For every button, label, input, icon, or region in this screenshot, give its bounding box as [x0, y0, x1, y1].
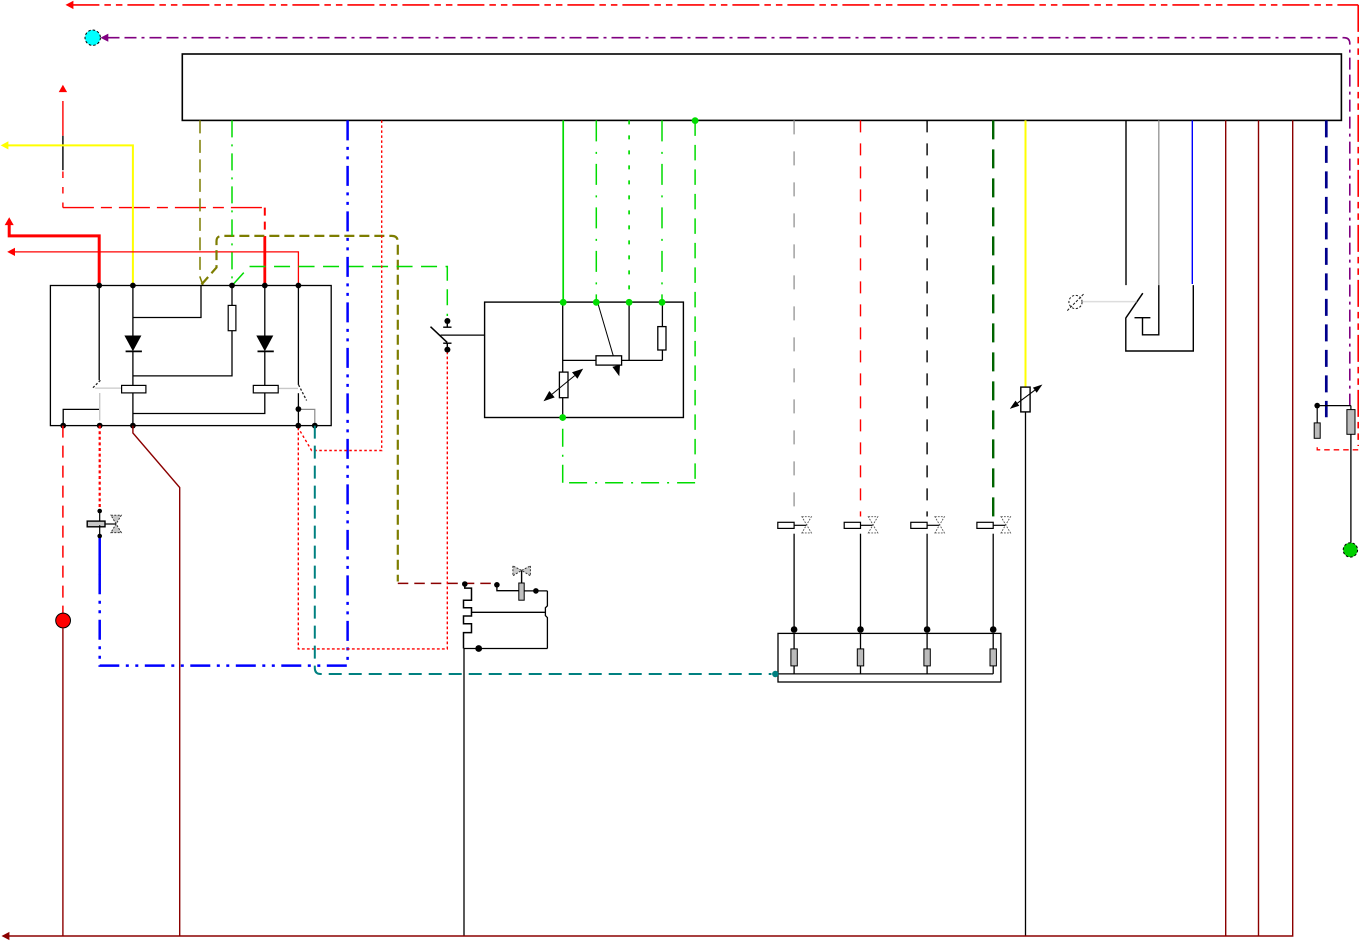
arrow adjustable double-head through vertical resistor	[552, 376, 575, 395]
wire red vertical into relay terminal 15 (dashed then thick)	[264, 208, 266, 231]
resistor R2 adjustable trim	[1021, 387, 1030, 412]
wire mid dot to solenoid	[497, 586, 519, 591]
wire red dashed to injector 2	[860, 120, 862, 516]
wire green dotted ECU to sensor pin 3	[628, 120, 630, 302]
arrow dark red ground bus left	[2, 932, 10, 940]
symbol rotation input circle-slash	[1069, 295, 1082, 308]
wire yellow terminal down to diode D1	[132, 286, 134, 337]
wire black dashed to injector 3	[926, 120, 928, 516]
relay K1 double relay box	[50, 286, 331, 426]
wire red dash-dot horizontal y=208	[63, 207, 265, 209]
wire right contact to bottom terminals	[297, 393, 299, 409]
wire green dashed ECU pin down right of sensor	[694, 120, 696, 482]
node green terminals sensor top	[559, 117, 698, 421]
wire blue ECU to sensor right pin	[1191, 120, 1193, 284]
node cyan terminal circle top-left	[85, 30, 100, 45]
node green connector circle	[1343, 543, 1357, 557]
arrow yellow left	[1, 141, 9, 149]
wire thin red feed with left arrow to relay terminal right	[14, 252, 298, 286]
heater element zigzag	[464, 585, 472, 649]
wire dark red from connector to ground bus	[62, 628, 64, 936]
wire dark red ECU to ground bus 2	[1258, 120, 1260, 936]
wire teal dashed relay to injector rail	[315, 426, 772, 674]
wire top red dash-dot supply line with left arrow, wraps down right edge	[72, 5, 1358, 446]
injector V1 valve symbol	[778, 517, 812, 629]
coil injector 2	[860, 633, 862, 674]
wire trim resistor to ground bus	[1025, 412, 1027, 936]
wire pin3 to track	[628, 302, 630, 360]
diode D1	[124, 336, 141, 352]
valve Y1 idle air valve	[99, 513, 101, 521]
wire dark-green dashed to injector 4	[992, 120, 994, 516]
coil injector 3	[926, 633, 928, 674]
arrow left end of top red line	[66, 1, 74, 9]
wire track left	[563, 359, 596, 361]
wire olive terminal to diode branch	[133, 286, 201, 318]
resistor vertical in sensor	[559, 372, 568, 398]
node relay bottom terminals	[60, 406, 317, 428]
node injector rail terminals	[791, 626, 997, 633]
wire lime dashed from relay terminal to ignition switch	[233, 267, 447, 317]
box injector rail resistor pack	[778, 633, 1001, 682]
wire blue dash-dot-dot from ECU pin down and left to air valve	[100, 120, 348, 665]
wire green dash-dot ECU to sensor pin 2	[595, 120, 597, 302]
wire pin1 vertical through box	[562, 302, 564, 372]
arrow wiper head	[612, 365, 620, 377]
wire diode D2 cathode to coil K1b	[264, 352, 266, 386]
injector V4 valve symbol	[977, 517, 1011, 629]
wire resistor R4 to green connector	[1350, 434, 1352, 542]
resistor right vertical in sensor	[658, 327, 666, 350]
injector V3 valve symbol	[911, 517, 945, 629]
node junction dot bottom	[475, 645, 482, 652]
switch S1 ignition-fed switch at x=447	[446, 322, 448, 327]
wire regulator bottom rail	[464, 648, 548, 650]
sensor interior	[563, 301, 663, 418]
wire gray ECU to sensor mid pin	[1158, 120, 1160, 285]
wire solenoid to right rail	[524, 590, 547, 592]
wire olive dashed from ECU pin to relay	[200, 120, 203, 285]
wire pin4 to resistor	[661, 302, 663, 327]
wire navy thick dashed ECU down right side	[1325, 120, 1328, 417]
resistor R3 small gray	[1314, 423, 1320, 438]
valve bowtie gray	[513, 566, 522, 576]
wire red dotted relay to air valve	[99, 426, 101, 509]
arrow red up at x=63	[59, 85, 67, 92]
wire coil K1a to bottom terminal	[132, 393, 134, 426]
wire resistor R bottom branch to D1 net	[133, 331, 232, 376]
wire switch arm to sensor box	[441, 334, 607, 336]
diode D2	[256, 336, 273, 352]
wire track right	[622, 359, 663, 361]
arrow purple pointing left into cyan node	[100, 34, 108, 42]
switch arm sensor	[1126, 293, 1143, 318]
arrow red left thin	[7, 248, 15, 256]
wire red terminal to diode D2	[264, 286, 266, 337]
valve stem	[521, 570, 523, 583]
wire right rail with connector jog	[545, 591, 547, 649]
node valve upper	[97, 509, 102, 514]
node green terminal at ECU edge	[692, 117, 699, 124]
wire internal crossbar	[472, 611, 546, 613]
arrow red up thick	[5, 217, 14, 225]
arrow adjustable double-head through trim resistor	[1017, 390, 1034, 403]
wire green dash-dot ECU to sensor pin 4	[661, 120, 663, 302]
relay interior wires	[63, 286, 298, 426]
wire thick red battery feed with up arrow to relay terminal 30	[9, 225, 99, 286]
wire purple dash-dot line from cyan node, wraps down at right	[108, 38, 1350, 410]
wire gray link to second bottom terminal	[298, 409, 315, 423]
wire green solid ECU to sensor pin 1	[562, 120, 564, 302]
op main control unit box (ECU)	[182, 54, 1341, 120]
wire regulator to ground bus	[463, 649, 465, 937]
wire yellow ECU to trim resistor	[1025, 120, 1027, 387]
resistor horizontal track in sensor	[596, 356, 622, 365]
node green terminal sensor bottom	[559, 414, 566, 421]
wire yellow feed with left arrow to relay	[7, 145, 133, 285]
wire contact arm supply right	[297, 286, 299, 385]
wire right component top link	[1317, 405, 1351, 407]
wire dot to resistor R3	[1316, 406, 1318, 423]
node junction dot right component	[1314, 403, 1320, 409]
resistor R4 gray	[1347, 410, 1355, 435]
wire red dashed relay to red connector circle	[62, 426, 64, 614]
wire black ECU to sensor left pin	[1125, 120, 1127, 285]
sensor body lines	[1126, 285, 1194, 351]
wire green dash-dot from ECU pin to relay terminal	[231, 120, 233, 285]
wire red dotted loop relay bottom to ignition switch contact	[298, 353, 447, 649]
wire green dash-dot loop to sensor bottom terminal	[563, 482, 695, 484]
sensor U2 throttle potentiometer box	[485, 302, 684, 417]
switch arm right relay contact (dashed)	[299, 385, 307, 401]
wire gray actuator link right	[279, 387, 298, 389]
node valve lower	[97, 534, 102, 539]
wire contact arm supply left	[98, 286, 100, 381]
node teal terminal on rail	[772, 671, 778, 677]
wire diode D1 cathode to coil K1a	[132, 352, 134, 386]
wire rail common bus	[778, 673, 993, 675]
solenoid gray rect	[519, 583, 524, 600]
wire red vertical x=63 with up arrow (segment red/black/red-dash)	[62, 101, 64, 208]
wire olive dashed loop from relay terminal to pressure regulator	[202, 236, 398, 582]
wire dark red relay to ground bus (diagonal)	[133, 426, 180, 936]
node red connector circle	[56, 613, 71, 628]
coil injector 4	[992, 633, 994, 674]
wire red dotted from ECU pin to relay bottom terminal	[299, 120, 382, 450]
wire red dashed hook bottom-right to resistor	[1317, 443, 1358, 449]
wire dark-red dashed horizontal to regulator	[398, 582, 497, 584]
coil K1a relay coil	[122, 385, 146, 393]
node relay top terminals	[96, 283, 301, 289]
wire dark red ECU to ground bus 1	[1225, 120, 1227, 936]
wire link to resistor R4	[1350, 406, 1352, 410]
wire gray long-dash to injector 1	[793, 120, 795, 516]
resistor R relay dropping resistor	[228, 305, 236, 330]
wire wiper from pin2	[597, 301, 616, 366]
node junction dot left	[462, 581, 468, 587]
injector V2 valve symbol	[844, 517, 878, 629]
wire gray actuator link left	[95, 387, 121, 389]
node junction dot mid	[494, 582, 500, 588]
wire gray actuator link to arm	[1082, 301, 1136, 303]
wire left fixed contact to bottom terminals	[63, 409, 99, 425]
node right contact junction	[296, 406, 302, 412]
wire coil K1b bottom to left net	[133, 393, 265, 414]
coil injector 1	[793, 633, 795, 674]
wire blue solid stub at air valve	[98, 537, 101, 575]
wire green terminal to resistor R	[231, 286, 233, 306]
coil K1b relay coil	[253, 385, 278, 393]
node junction dot right	[533, 588, 539, 594]
switch arm left relay contact (dashed)	[92, 380, 101, 389]
